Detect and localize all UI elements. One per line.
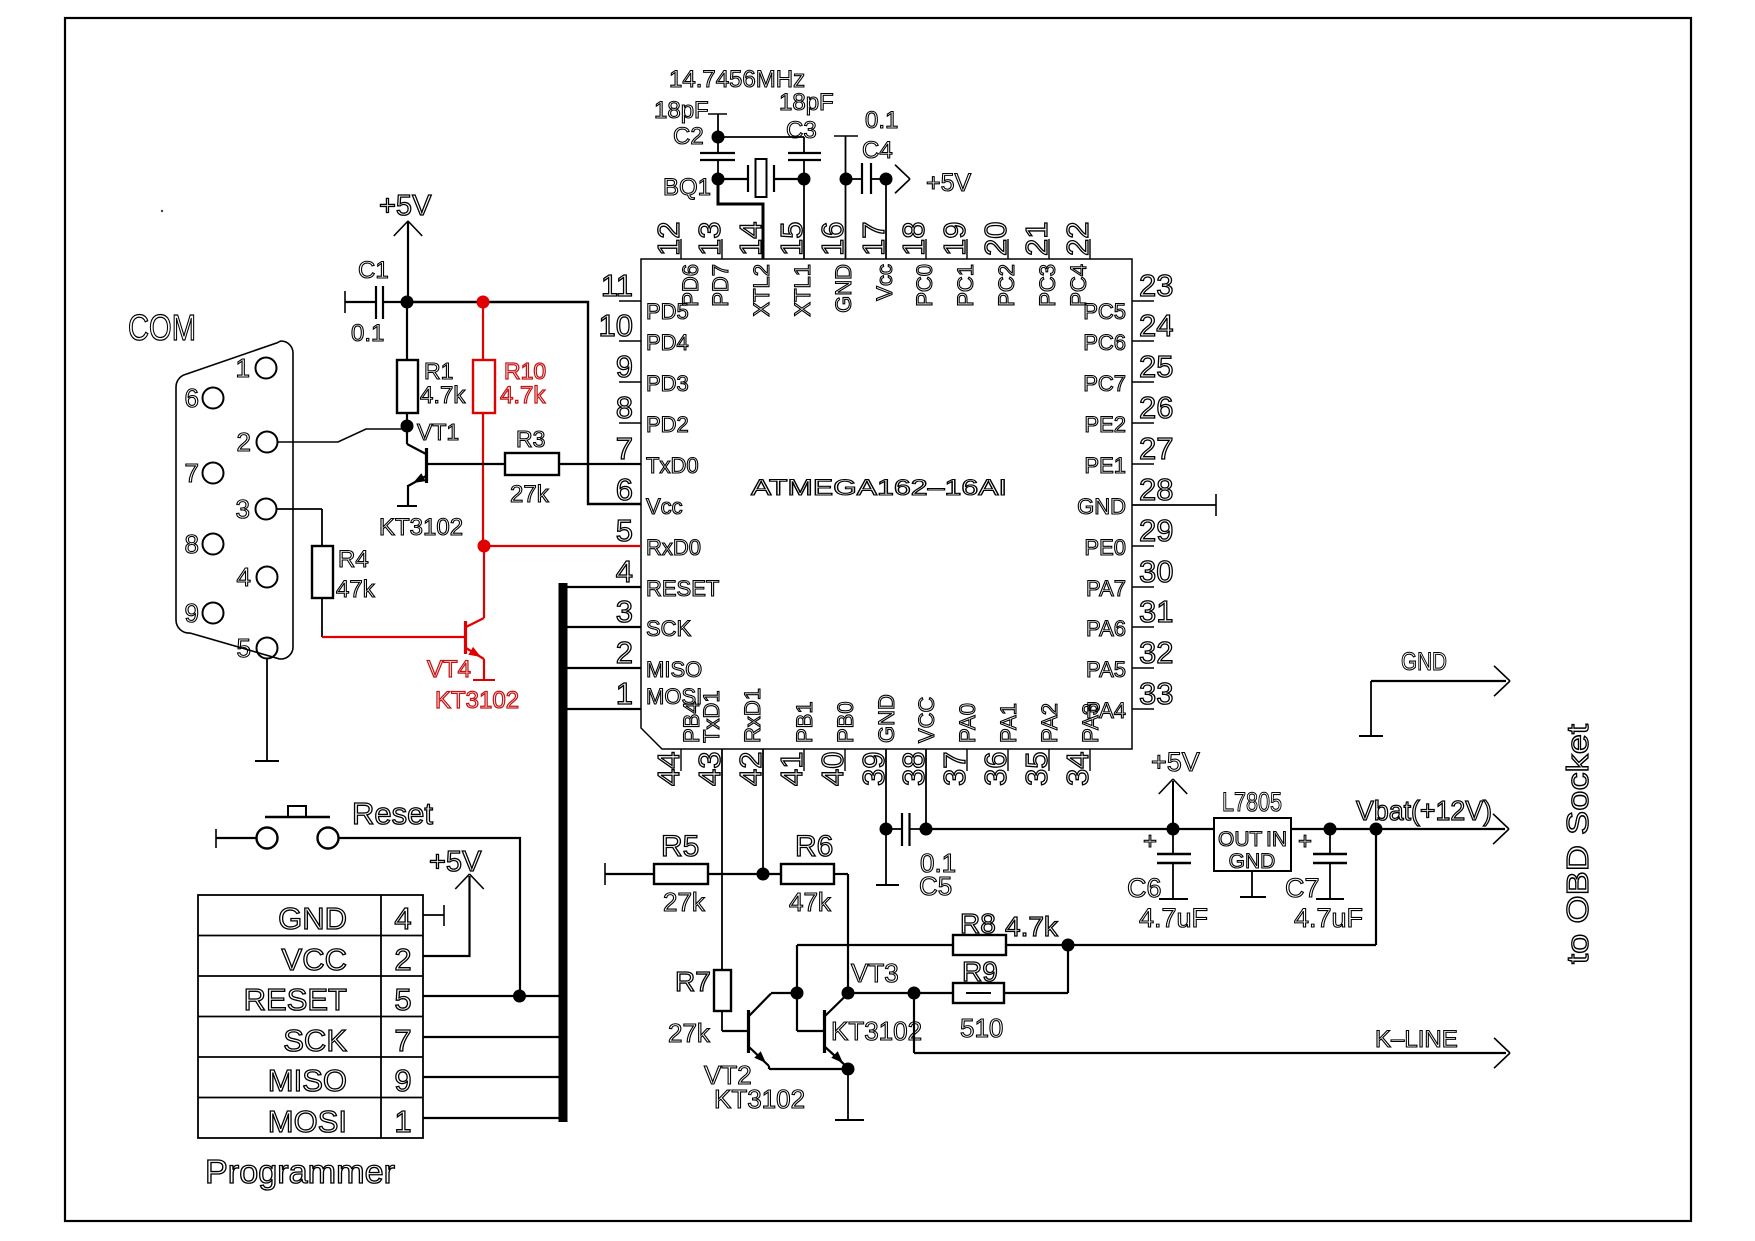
svg-text:PD5: PD5 [646, 299, 689, 324]
resistor R8 4.7k [797, 908, 1068, 993]
wire Vbat to R8 net [1375, 829, 1377, 945]
svg-text:BQ1: BQ1 [663, 174, 711, 201]
pin 40 PB0 (bottom) [815, 701, 858, 786]
COM pin 2 [237, 427, 278, 457]
svg-text:27k: 27k [510, 481, 550, 508]
svg-text:47k: 47k [336, 576, 376, 603]
power +5V symbol (top left) [379, 190, 432, 302]
pin 13 PD7 (top) [692, 222, 733, 307]
node VT3 collector [842, 987, 855, 1000]
svg-text:10: 10 [599, 308, 633, 343]
svg-text:32: 32 [1139, 635, 1173, 670]
svg-text:+: + [1298, 828, 1312, 855]
node R5/R6/RxD1 junction [757, 868, 770, 881]
svg-text:2: 2 [394, 942, 411, 977]
svg-text:+5V: +5V [429, 846, 482, 878]
svg-text:to OBD Socket: to OBD Socket [1560, 724, 1595, 964]
svg-text:R3: R3 [516, 426, 545, 452]
svg-text:47k: 47k [789, 887, 832, 917]
svg-text:1: 1 [236, 353, 250, 383]
wire L7805 IN to Vbat [1291, 828, 1505, 830]
pin 25 PC7 (right) [1083, 349, 1173, 396]
pin 38 VCC (bottom) [896, 696, 939, 786]
svg-text:2: 2 [616, 635, 633, 670]
transistor VT3 KT3102 [824, 958, 922, 1069]
svg-text:COM: COM [128, 307, 196, 348]
svg-text:22: 22 [1060, 222, 1095, 256]
svg-text:25: 25 [1139, 349, 1173, 384]
wire +5V rail to L7805 OUT [926, 828, 1214, 830]
pin 36 PA1 (bottom) [978, 703, 1021, 786]
connector X1 Programmer table [198, 895, 423, 1138]
ground stub emitters [835, 1069, 864, 1120]
svg-text:RESET: RESET [244, 982, 347, 1017]
pin 18 PC0 (top) [896, 222, 937, 307]
svg-text:0.1: 0.1 [865, 107, 898, 134]
wire GND pin16 riser [834, 136, 858, 259]
svg-text:27: 27 [1139, 431, 1173, 466]
node C5 right junction [920, 823, 933, 836]
capacitor C6 4.7uF polarized [1127, 828, 1208, 933]
svg-text:TxD1: TxD1 [699, 690, 724, 743]
wire SCK row to bus [423, 1036, 562, 1038]
wire MOSI row to bus [423, 1117, 562, 1119]
svg-text:PC7: PC7 [1083, 371, 1126, 396]
resistor R10 4.7k (red) [473, 302, 546, 546]
svg-text:MISO: MISO [646, 657, 702, 682]
svg-text:PE1: PE1 [1084, 453, 1126, 478]
svg-text:Programmer: Programmer [205, 1153, 395, 1190]
connector COM DB9 [128, 307, 293, 659]
svg-text:0.1: 0.1 [351, 320, 384, 347]
svg-text:PB0: PB0 [833, 701, 858, 743]
svg-text:R7: R7 [675, 966, 711, 997]
pin 22 PC4 (top) [1060, 222, 1095, 307]
svg-text:19: 19 [937, 222, 972, 256]
svg-text:C7: C7 [1285, 873, 1320, 903]
wire TxD1 pin43 to R7 [721, 749, 723, 970]
COM pin 6 [185, 383, 224, 413]
node K-LINE junction [908, 987, 921, 1000]
resistor R3 27k [426, 426, 641, 508]
pin 43 TxD1 (bottom) [692, 690, 727, 786]
svg-text:4.7k: 4.7k [420, 382, 466, 409]
wire RxD1 pin42 drop [762, 749, 764, 874]
pin 16 GND (top) [815, 222, 856, 313]
wire COM pin2 to VT1 collector [277, 429, 407, 442]
wire C2-C3 top link [718, 136, 804, 138]
svg-text:TxD0: TxD0 [646, 453, 699, 478]
svg-text:PA3: PA3 [1078, 703, 1103, 743]
svg-text:SCK: SCK [283, 1023, 347, 1058]
Programmer row MISO pin 9 [268, 1063, 412, 1098]
svg-text:GND: GND [1401, 648, 1447, 676]
resistor R4 47k [276, 509, 376, 637]
pin 12 PD6 (top) [651, 222, 703, 307]
pin 33 PA4 (right) [1086, 676, 1173, 723]
node C4 left junction [840, 173, 853, 186]
svg-text:Reset: Reset [352, 796, 433, 831]
node C2 top junction [712, 131, 725, 144]
svg-text:1: 1 [394, 1104, 411, 1139]
pin 3 SCK (left) [616, 594, 692, 641]
ISP bus (thick) [559, 583, 568, 1122]
node emitters junction [842, 1063, 855, 1076]
svg-text:C3: C3 [786, 117, 817, 144]
svg-text:Vcc: Vcc [646, 494, 683, 519]
pin 6 Vcc (left) [616, 472, 683, 519]
pin 1 MOSI (left) [616, 676, 702, 711]
svg-text:27k: 27k [663, 887, 706, 917]
svg-text:MOSI: MOSI [268, 1104, 347, 1139]
pin 44 PB4 (bottom) [651, 701, 704, 786]
svg-text:K–LINE: K–LINE [1375, 1026, 1458, 1053]
COM pin 7 [185, 458, 224, 488]
svg-text:PB1: PB1 [792, 701, 817, 743]
svg-text:11: 11 [601, 268, 633, 303]
svg-text:PC3: PC3 [1035, 264, 1060, 307]
svg-text:XTL1: XTL1 [790, 264, 815, 317]
svg-text:13: 13 [692, 222, 727, 256]
Programmer row VCC pin 2 [282, 942, 412, 977]
capacitor C5 0.1 [886, 813, 956, 901]
svg-text:4.7k: 4.7k [500, 382, 546, 409]
svg-text:37: 37 [937, 752, 972, 786]
pin 5 RxD0 (left) [616, 513, 701, 560]
svg-text:7: 7 [185, 458, 199, 488]
svg-text:PA5: PA5 [1086, 657, 1126, 682]
node C6 junction [1167, 823, 1180, 836]
svg-text:GND: GND [278, 901, 347, 936]
speck artifact [161, 210, 163, 212]
svg-text:1: 1 [616, 676, 633, 711]
wire RESET row to bus [423, 995, 562, 997]
svg-text:6: 6 [616, 472, 633, 507]
ground stub Programmer pin4 [423, 905, 444, 926]
svg-text:4.7uF: 4.7uF [1294, 903, 1363, 933]
pin 24 PC6 (right) [1083, 308, 1173, 355]
svg-text:18: 18 [896, 222, 931, 256]
svg-text:24: 24 [1139, 308, 1173, 343]
svg-text:R1: R1 [424, 358, 453, 384]
svg-text:PA2: PA2 [1037, 703, 1062, 743]
pin 42 RxD1 (bottom) [733, 688, 768, 786]
pin 29 PE0 (right) [1084, 513, 1173, 560]
capacitor C2 18pF [654, 97, 735, 179]
svg-text:6: 6 [185, 383, 199, 413]
wire node to VT3 base [797, 993, 824, 1031]
svg-text:8: 8 [185, 529, 199, 559]
resistor R9 510 [914, 945, 1068, 1043]
Programmer row RESET pin 5 [244, 982, 412, 1017]
pin 14 XTL2 (top) [733, 222, 774, 317]
wire +5V rail to Vcc pin 6 [407, 302, 641, 504]
wire bus to SCK pin3 [567, 626, 641, 628]
svg-text:9: 9 [616, 349, 633, 384]
node +5V/R10 junction (red) [477, 296, 490, 309]
pin 37 PA0 (bottom) [937, 703, 980, 786]
transistor VT2 KT3102 [704, 994, 848, 1115]
wire BQ1 to XTL2 pin 14 (thick) [718, 179, 763, 259]
svg-text:+: + [1143, 828, 1157, 855]
node C7 junction [1324, 823, 1337, 836]
pin 34 PA3 (bottom) [1060, 703, 1103, 786]
resistor R1 4.7k [397, 302, 466, 426]
pin 30 PA7 (right) [1086, 554, 1173, 601]
svg-text:3: 3 [236, 494, 250, 524]
capacitor C3 18pF [779, 89, 834, 179]
node RxD0/R10/VT4 junction (red) [478, 540, 491, 553]
wire R7 to VT2 base [722, 1030, 748, 1032]
node R8/R9/Vbat junction [1062, 939, 1075, 952]
wire bus to MISO pin2 [567, 667, 641, 669]
ground stub below C5 [876, 829, 899, 885]
svg-text:C6: C6 [1127, 873, 1162, 903]
svg-text:KT3102: KT3102 [714, 1084, 805, 1114]
svg-text:MISO: MISO [268, 1063, 347, 1098]
wire collector node to K-LINE node [848, 992, 914, 994]
wire C3 to XTL1 pin 15 [803, 179, 805, 259]
COM pin 1 [236, 353, 277, 383]
svg-text:PC6: PC6 [1083, 330, 1126, 355]
pin 19 PC1 (top) [937, 222, 978, 307]
ground stub COM pin5 [255, 659, 279, 761]
transistor VT4 KT3102 (red) [427, 546, 519, 714]
pin 17 Vcc (top) [856, 222, 897, 301]
svg-text:XTL2: XTL2 [749, 264, 774, 317]
svg-text:OUT: OUT [1218, 828, 1263, 851]
svg-text:510: 510 [960, 1013, 1003, 1043]
pin 9 PD3 (left) [616, 349, 689, 396]
COM pin 3 [236, 494, 277, 524]
svg-text:VT4: VT4 [427, 656, 471, 683]
pin 28 GND (right) [1077, 472, 1173, 519]
svg-text:12: 12 [651, 222, 686, 256]
resistor R6 47k [763, 830, 848, 917]
IC U1 ATMEGA162-16AI body (TQFP44) [641, 259, 1132, 749]
wire GND pin28 stub with tick [1132, 494, 1216, 516]
svg-text:R10: R10 [504, 358, 546, 384]
svg-text:R5: R5 [661, 830, 699, 863]
svg-text:4.7k: 4.7k [1005, 911, 1059, 942]
svg-text:C1: C1 [358, 257, 389, 284]
wire RxD0 pin5 (red) [484, 545, 641, 547]
wire R4 to VT4 base (red) [322, 636, 466, 638]
svg-text:21: 21 [1019, 222, 1054, 256]
svg-text:PA7: PA7 [1086, 576, 1126, 601]
pin 20 PC2 (top) [978, 222, 1019, 307]
wire VT2 collector to VT3 base node [771, 992, 797, 994]
resistor R5 27k [605, 830, 763, 917]
svg-text:5: 5 [394, 982, 411, 1017]
svg-text:PE0: PE0 [1084, 535, 1126, 560]
svg-text:20: 20 [978, 222, 1013, 256]
svg-text:Vcc: Vcc [872, 264, 897, 301]
svg-text:GND: GND [831, 264, 856, 313]
svg-text:RESET: RESET [646, 576, 719, 601]
svg-text:41: 41 [774, 752, 809, 786]
crystal BQ1 14.7456MHz [663, 159, 804, 201]
svg-text:18pF: 18pF [779, 89, 834, 116]
pin 8 PD2 (left) [616, 390, 689, 437]
svg-text:KT3102: KT3102 [831, 1016, 922, 1046]
svg-text:2: 2 [237, 427, 251, 457]
pin 2 MISO (left) [616, 635, 702, 682]
svg-text:RxD1: RxD1 [740, 688, 765, 743]
svg-text:IN: IN [1266, 828, 1287, 851]
svg-text:34: 34 [1060, 752, 1095, 786]
ground net arrow (to OBD) [1359, 648, 1510, 736]
pin 23 PC5 (right) [1083, 268, 1173, 324]
svg-text:33: 33 [1139, 676, 1173, 711]
pin 26 PE2 (right) [1084, 390, 1173, 437]
svg-text:PC2: PC2 [994, 264, 1019, 307]
svg-text:R6: R6 [795, 830, 833, 863]
svg-text:4: 4 [394, 901, 411, 936]
svg-text:VCC: VCC [282, 942, 347, 977]
svg-text:PA6: PA6 [1086, 616, 1126, 641]
svg-text:18pF: 18pF [654, 97, 709, 124]
svg-text:RxD0: RxD0 [646, 535, 701, 560]
resistor R7 27k [668, 966, 731, 1048]
svg-text:PC0: PC0 [912, 264, 937, 307]
pin 31 PA6 (right) [1086, 594, 1173, 641]
wire bus to RESET pin4 [567, 586, 641, 588]
svg-text:27k: 27k [668, 1018, 711, 1048]
pin 35 PA2 (bottom) [1019, 703, 1062, 786]
capacitor C4 0.1 [846, 107, 898, 194]
node VT2 collector / VT3 base / R8 [791, 987, 804, 1000]
svg-text:4: 4 [237, 562, 251, 592]
wire VCC pin38 drop [925, 749, 927, 829]
reset pushbutton SB1 [216, 796, 433, 849]
svg-text:4: 4 [616, 554, 633, 589]
svg-text:Vbat(+12V): Vbat(+12V) [1356, 795, 1492, 826]
wire bus to MOSI pin1 [567, 708, 641, 710]
svg-text:KT3102: KT3102 [379, 514, 463, 541]
svg-text:VCC: VCC [914, 696, 939, 743]
wire MISO row to bus [423, 1076, 562, 1078]
svg-text:C2: C2 [673, 123, 704, 150]
svg-text:4.7uF: 4.7uF [1139, 903, 1208, 933]
svg-text:5: 5 [237, 633, 251, 663]
node +5V/C1/R1 junction [401, 296, 414, 309]
power +5V to Programmer VCC [423, 846, 484, 956]
svg-text:PD4: PD4 [646, 330, 689, 355]
svg-text:KT3102: KT3102 [435, 687, 519, 714]
pin 21 PC3 (top) [1019, 222, 1060, 307]
svg-text:PD7: PD7 [708, 264, 733, 307]
pin 11 PD5 (left) [601, 268, 689, 324]
pin 32 PA5 (right) [1086, 635, 1173, 682]
svg-text:R8: R8 [960, 908, 996, 939]
node C5 left junction [880, 823, 893, 836]
svg-text:3: 3 [616, 594, 633, 629]
wire reset button to RESET net [339, 838, 520, 996]
Programmer row MOSI pin 1 [268, 1104, 412, 1139]
svg-text:36: 36 [978, 752, 1013, 786]
svg-text:PD3: PD3 [646, 371, 689, 396]
node C4/Vcc17 junction [880, 173, 893, 186]
svg-text:R9: R9 [962, 956, 998, 987]
svg-text:VT3: VT3 [851, 958, 899, 988]
pin 10 PD4 (left) [599, 308, 689, 355]
svg-text:9: 9 [185, 598, 199, 628]
Programmer row GND pin 4 [278, 901, 412, 936]
node reset junction [513, 990, 526, 1003]
svg-text:ATMEGA162–16AI: ATMEGA162–16AI [751, 475, 1007, 500]
node BQ1 right junction [798, 173, 811, 186]
COM pin 9 [185, 598, 224, 628]
net K-LINE wire with arrow [914, 993, 1510, 1068]
svg-text:9: 9 [394, 1063, 411, 1098]
svg-text:GND: GND [874, 694, 899, 743]
pin 7 TxD0 (left) [616, 431, 699, 478]
COM pin 5 [237, 633, 278, 663]
svg-text:7: 7 [394, 1023, 411, 1058]
pin 15 XTL1 (top) [774, 222, 815, 317]
svg-text:31: 31 [1139, 594, 1173, 629]
pin 4 RESET (left) [616, 554, 720, 601]
svg-text:PD2: PD2 [646, 412, 689, 437]
svg-text:29: 29 [1139, 513, 1173, 548]
svg-text:R4: R4 [338, 546, 369, 573]
svg-text:23: 23 [1139, 268, 1173, 303]
svg-text:PA0: PA0 [955, 703, 980, 743]
node BQ1 left junction [712, 173, 725, 186]
svg-text:SCK: SCK [646, 616, 692, 641]
transistor VT1 KT3102 [379, 419, 463, 541]
svg-text:C5: C5 [919, 871, 952, 901]
capacitor C7 4.7uF polarized [1285, 828, 1363, 933]
power +5V arrow (crystal area) [895, 165, 972, 197]
svg-text:PA1: PA1 [996, 703, 1021, 743]
svg-text:+5V: +5V [379, 190, 432, 222]
pin 27 PE1 (right) [1084, 431, 1173, 478]
COM pin 8 [185, 529, 224, 559]
wire GND pin39 drop [885, 749, 887, 829]
wire R8 node to Vbat branch [1068, 944, 1376, 946]
svg-text:7: 7 [616, 431, 633, 466]
svg-text:8: 8 [616, 390, 633, 425]
svg-text:C4: C4 [862, 137, 893, 164]
svg-text:+5V: +5V [926, 169, 972, 197]
svg-text:35: 35 [1019, 752, 1054, 786]
svg-text:5: 5 [616, 513, 633, 548]
svg-text:28: 28 [1139, 472, 1173, 507]
svg-text:GND: GND [1077, 494, 1126, 519]
node Vbat junction [1370, 823, 1383, 836]
wire Vcc pin17 riser [885, 179, 887, 259]
svg-text:VT1: VT1 [417, 419, 459, 445]
svg-text:40: 40 [815, 752, 850, 786]
svg-text:PC5: PC5 [1083, 299, 1126, 324]
power +5V arrow (regulator) [1151, 747, 1200, 829]
pin 41 PB1 (bottom) [774, 701, 817, 786]
svg-text:26: 26 [1139, 390, 1173, 425]
voltage regulator U2 L7805 [1214, 787, 1291, 897]
capacitor C1 0.1 [345, 257, 407, 347]
Programmer row SCK pin 7 [283, 1023, 411, 1058]
svg-text:PC1: PC1 [953, 264, 978, 307]
svg-text:44: 44 [651, 752, 686, 786]
COM pin 4 [237, 562, 278, 592]
net label Vbat(+12V) with arrow [1356, 795, 1509, 844]
svg-text:30: 30 [1139, 554, 1173, 589]
svg-text:PE2: PE2 [1084, 412, 1126, 437]
svg-text:L7805: L7805 [1222, 787, 1282, 817]
pin 39 GND (bottom) [856, 694, 899, 786]
